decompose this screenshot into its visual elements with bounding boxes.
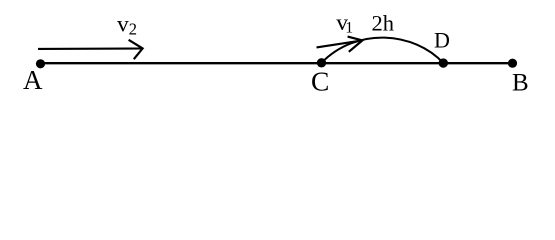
svg-text:D: D [434, 28, 450, 53]
svg-text:A: A [23, 65, 43, 95]
svg-text:2h: 2h [372, 10, 395, 35]
svg-text:2: 2 [129, 20, 137, 39]
arrow v2 shaft [38, 47, 141, 50]
arrow v2 head [129, 40, 143, 59]
wire: main horizontal line from A to B [40, 62, 513, 64]
arrow v1 head [348, 37, 363, 52]
node B (dot) [508, 59, 517, 68]
node D (dot) [439, 58, 448, 67]
arrow v1 shaft [317, 41, 360, 48]
svg-text:1: 1 [345, 20, 353, 37]
svg-text:C: C [311, 66, 329, 97]
node C (dot) [317, 58, 326, 67]
arc C to D (trajectory) [322, 38, 444, 64]
node A (dot) [36, 59, 45, 68]
svg-text:v: v [117, 12, 129, 38]
svg-text:B: B [512, 70, 529, 97]
